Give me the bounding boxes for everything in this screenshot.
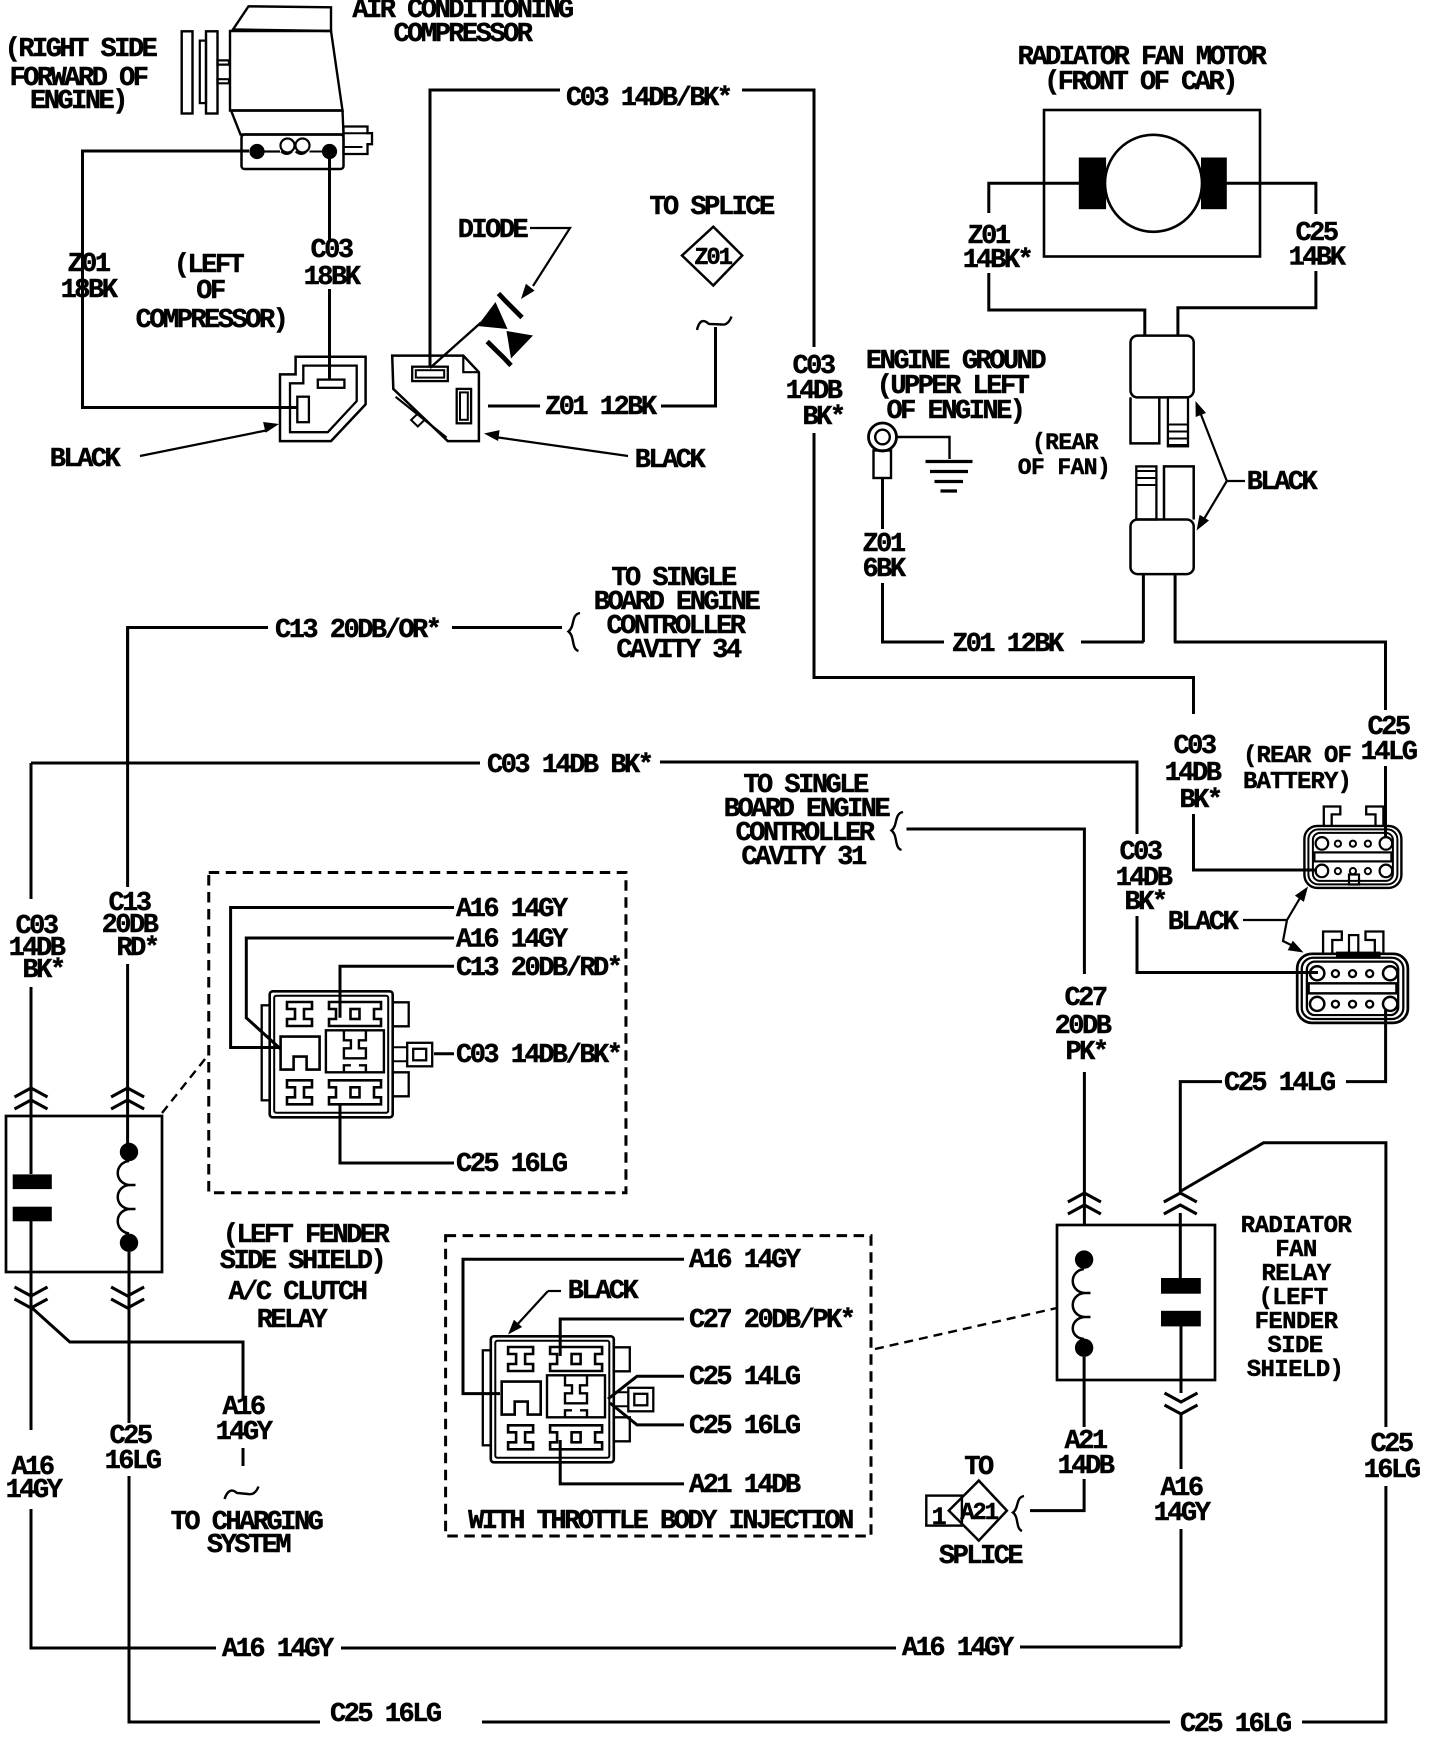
svg-text:A16 14GY: A16 14GY xyxy=(222,1635,335,1665)
svg-text:C27 20DB/PK*: C27 20DB/PK* xyxy=(689,1306,854,1336)
svg-text:RD*: RD* xyxy=(116,934,157,964)
svg-text:RELAY: RELAY xyxy=(1261,1261,1331,1288)
wire Z01 18BK from compressor to connector xyxy=(83,151,299,408)
svg-text:FAN: FAN xyxy=(1275,1237,1316,1264)
svg-text:14BK: 14BK xyxy=(1289,244,1347,274)
relay K1 contact xyxy=(13,1174,52,1189)
wire C03 14DB/BK* right segment xyxy=(742,90,814,347)
wire C27 from cavity31 brace xyxy=(907,829,1085,974)
inline connector chevrons below K1 right xyxy=(111,1287,144,1308)
svg-text:14GY: 14GY xyxy=(6,1476,64,1506)
wire Z01 6BK xyxy=(881,478,884,529)
svg-text:OF FAN): OF FAN) xyxy=(1018,455,1110,481)
svg-text:BK*: BK* xyxy=(802,403,843,433)
inline connector chevrons C03 xyxy=(15,1088,48,1109)
connector cavity (C03) xyxy=(412,367,448,381)
inline connector chevrons C25 xyxy=(1164,1193,1197,1214)
wire C13 left column xyxy=(126,628,129,887)
svg-text:14DB: 14DB xyxy=(1165,759,1222,789)
svg-text:C25 16LG: C25 16LG xyxy=(330,1700,441,1730)
dashed box (A/C clutch relay connector) xyxy=(209,873,626,1193)
svg-text:COMPRESSOR): COMPRESSOR) xyxy=(136,306,287,336)
svg-text:BLACK: BLACK xyxy=(635,446,707,476)
svg-text:A16 14GY: A16 14GY xyxy=(456,926,569,956)
8-pin connector B (black) xyxy=(1297,954,1408,1023)
wire C03 14DB BK* to y677 run xyxy=(814,433,1194,714)
A/C compressor pulley xyxy=(182,31,193,113)
svg-text:SPLICE: SPLICE xyxy=(939,1542,1024,1572)
wire to 8pin connector B xyxy=(1137,916,1318,973)
relay K2 contact xyxy=(1161,1278,1201,1294)
svg-text:DIODE: DIODE xyxy=(458,216,529,246)
wire C25 14BK motor right xyxy=(1226,183,1316,214)
fan motor brush right xyxy=(1201,158,1227,210)
compressor terminal left xyxy=(249,144,264,159)
svg-text:CAVITY 31: CAVITY 31 xyxy=(741,843,867,873)
svg-text:ENGINE): ENGINE) xyxy=(30,87,126,117)
svg-text:WITH THROTTLE BODY INJECTION: WITH THROTTLE BODY INJECTION xyxy=(468,1507,853,1537)
wire C25 16LG (TBI) xyxy=(610,1403,684,1425)
connector latch bump xyxy=(411,414,424,427)
svg-text:C27: C27 xyxy=(1064,984,1106,1014)
svg-text:BK*: BK* xyxy=(1124,888,1165,918)
inline connector chevrons C13 xyxy=(111,1088,144,1109)
svg-text:BLACK: BLACK xyxy=(1247,468,1319,498)
compressor terminal right xyxy=(322,144,337,159)
wire A16 up to relay K2 xyxy=(1180,1529,1183,1647)
wire C03 left column xyxy=(30,763,33,899)
svg-text:(LEFT: (LEFT xyxy=(1258,1285,1327,1312)
splice box pin 1 xyxy=(926,1496,962,1526)
wire C27 to relay xyxy=(1083,1072,1086,1226)
svg-text:(FRONT OF CAR): (FRONT OF CAR) xyxy=(1044,68,1236,98)
svg-text:C03 14DB/BK*: C03 14DB/BK* xyxy=(566,84,731,114)
inline connector chevrons below K1 left xyxy=(15,1287,48,1308)
splice symbol Z01 diamond xyxy=(682,227,742,286)
svg-text:RADIATOR: RADIATOR xyxy=(1241,1213,1353,1240)
svg-text:BK*: BK* xyxy=(22,956,63,986)
svg-text:C25 16LG: C25 16LG xyxy=(689,1412,800,1442)
svg-text:A21: A21 xyxy=(960,1500,998,1527)
svg-text:OF ENGINE): OF ENGINE) xyxy=(886,397,1023,427)
svg-text:C25 16LG: C25 16LG xyxy=(456,1150,567,1180)
svg-text:C13 20DB/RD*: C13 20DB/RD* xyxy=(456,954,621,984)
TBI connector (black) xyxy=(483,1336,654,1462)
svg-text:16LG: 16LG xyxy=(1364,1456,1420,1486)
wire A16 right column upper xyxy=(1180,1415,1183,1469)
relay K1 contact wire xyxy=(30,1221,33,1307)
wire Z01 12BK to fan connector xyxy=(1081,641,1144,644)
svg-text:(RIGHT SIDE: (RIGHT SIDE xyxy=(5,35,158,65)
wire A16 14GY (relay conn pin 2) xyxy=(246,938,454,1049)
wire fan connector lower out left xyxy=(1142,574,1145,642)
inline connector chevrons C27 xyxy=(1068,1193,1101,1214)
svg-text:14GY: 14GY xyxy=(1154,1499,1212,1529)
relay K2 contact wire top xyxy=(1179,1213,1182,1278)
wire C25 14LG connector B to relay xyxy=(1346,1010,1386,1082)
svg-text:SHIELD): SHIELD) xyxy=(1247,1357,1344,1384)
wire fan connector lower out right xyxy=(1174,574,1177,642)
fan connector lower body xyxy=(1131,520,1194,575)
splice symbol A21 diamond xyxy=(949,1481,1007,1541)
wire A16 bottom right xyxy=(1020,1646,1181,1649)
wire C25 segment right of fan connector xyxy=(1174,642,1386,710)
svg-text:C13 20DB/OR*: C13 20DB/OR* xyxy=(275,616,440,646)
diode lead wire xyxy=(430,323,481,369)
brace (A21 splice) xyxy=(1013,1496,1024,1531)
svg-text:14GY: 14GY xyxy=(216,1418,274,1448)
svg-text:6BK: 6BK xyxy=(862,555,906,585)
relay K2 contact wire bottom xyxy=(1180,1326,1183,1393)
fan connector lower pin (striped) xyxy=(1136,466,1156,519)
wire C25 16LG right column xyxy=(1302,1486,1386,1722)
wire A21 14DB (TBI) xyxy=(560,1440,684,1484)
connector (compressor, black) outline xyxy=(280,357,366,441)
diode D1 (bowtie suppressor) xyxy=(478,302,508,329)
diode pointer line xyxy=(530,228,570,286)
wire C25 branch to C25 16LG xyxy=(1181,1143,1386,1427)
svg-text:(REAR OF: (REAR OF xyxy=(1243,743,1351,770)
svg-text:C03 14DB/BK*: C03 14DB/BK* xyxy=(456,1041,621,1071)
relay connector (left fender) xyxy=(262,991,433,1117)
relay K1 (A/C clutch relay) box xyxy=(6,1116,162,1272)
svg-text:C25 16LG: C25 16LG xyxy=(1180,1710,1291,1740)
svg-text:A/C CLUTCH: A/C CLUTCH xyxy=(228,1278,366,1308)
svg-text:CAVITY 34: CAVITY 34 xyxy=(616,636,742,666)
svg-text:A16 14GY: A16 14GY xyxy=(902,1634,1015,1664)
svg-text:14LG: 14LG xyxy=(1361,738,1417,768)
8-pin connector A (rear of battery) xyxy=(1304,826,1401,888)
dashed box (throttle body) xyxy=(446,1236,871,1536)
svg-text:(REAR: (REAR xyxy=(1032,430,1099,456)
svg-text:SIDE: SIDE xyxy=(1267,1333,1322,1360)
svg-text:C03: C03 xyxy=(1173,732,1215,762)
relay K2 coil wire xyxy=(1083,1357,1086,1427)
wire C03 14DB BK* long run xyxy=(31,762,480,765)
wire hook below Z01 splice xyxy=(697,317,732,331)
dashed leader to relay K2 xyxy=(875,1308,1057,1349)
hook (to charging system) xyxy=(225,1487,259,1500)
A/C compressor terminal block xyxy=(242,135,344,170)
relay K1 coil wire xyxy=(128,1252,131,1342)
svg-text:BATTERY): BATTERY) xyxy=(1243,769,1351,796)
brace (cavity 31) xyxy=(892,812,904,850)
svg-text:C03 14DB BK*: C03 14DB BK* xyxy=(487,751,652,781)
wire A16 left column down xyxy=(30,1307,33,1430)
svg-text:14DB: 14DB xyxy=(1058,1452,1115,1482)
wire C13 20DB/RD* (relay conn) xyxy=(340,966,454,1018)
ground symbol xyxy=(897,437,950,459)
wire A21 14DB xyxy=(1030,1479,1084,1511)
connector B tabs xyxy=(1323,932,1342,956)
wire C13 20DB/OR* run xyxy=(128,628,268,763)
svg-text:BLACK: BLACK xyxy=(568,1277,640,1307)
svg-text:C25 14LG: C25 14LG xyxy=(1224,1069,1335,1099)
svg-text:OF: OF xyxy=(196,277,225,307)
svg-text:FENDER: FENDER xyxy=(1255,1309,1339,1336)
wire A16 to charging hook xyxy=(242,1448,245,1466)
dashed leader to relay K1 xyxy=(162,1054,209,1113)
svg-text:TO SPLICE: TO SPLICE xyxy=(649,193,775,223)
svg-text:TO: TO xyxy=(964,1453,994,1483)
brace (cavity 34) xyxy=(569,613,581,651)
svg-text:BLACK: BLACK xyxy=(1168,908,1240,938)
wire A16 bottom middle xyxy=(341,1647,896,1650)
connector (diode, black) outline xyxy=(392,356,479,442)
inline connector chevrons below K2 xyxy=(1165,1393,1198,1414)
relay K2 (radiator fan relay) box xyxy=(1057,1225,1215,1380)
A/C compressor body xyxy=(233,6,331,31)
wire C25 16LG from K1 coil xyxy=(128,1342,131,1423)
svg-text:A16 14GY: A16 14GY xyxy=(689,1246,802,1276)
wire Z01 14BK* motor left xyxy=(989,183,1079,213)
fan motor box xyxy=(1044,110,1260,257)
svg-text:14BK*: 14BK* xyxy=(963,246,1032,276)
wire A16 14GY (relay conn pin 1) xyxy=(231,908,454,1048)
wire C03 14DB/BK* (relay conn) xyxy=(434,1052,454,1055)
wire C03 18BK compressor to connector xyxy=(328,159,331,242)
svg-text:Z01 12BK: Z01 12BK xyxy=(952,630,1065,660)
connector cavity (Z01 pin) xyxy=(297,397,309,423)
relay K2 coil xyxy=(1075,1250,1093,1268)
connector A tabs xyxy=(1324,807,1341,827)
svg-text:Z01 12BK: Z01 12BK xyxy=(545,393,658,423)
svg-text:SIDE SHIELD): SIDE SHIELD) xyxy=(220,1247,384,1277)
fan connector upper body xyxy=(1131,336,1194,398)
relay K1 coil xyxy=(120,1143,138,1161)
svg-text:RELAY: RELAY xyxy=(257,1306,329,1336)
compressor clutch coil squiggle xyxy=(265,150,281,152)
svg-text:BK*: BK* xyxy=(1179,786,1220,816)
svg-text:18BK: 18BK xyxy=(61,276,119,306)
svg-text:C03: C03 xyxy=(310,236,352,266)
svg-text:18BK: 18BK xyxy=(304,263,362,293)
svg-text:A21 14DB: A21 14DB xyxy=(689,1471,801,1501)
fan motor brush left xyxy=(1079,158,1106,210)
wire C03 14DB/BK* from diode connector up xyxy=(430,90,560,366)
wire A16 diagonal from K1 xyxy=(31,1307,243,1398)
wire C27 20DB/PK* (TBI) xyxy=(560,1319,684,1356)
fan connector upper pin (striped) xyxy=(1168,397,1188,446)
svg-text:16LG: 16LG xyxy=(105,1447,161,1477)
svg-text:A16 14GY: A16 14GY xyxy=(456,895,569,925)
svg-text:SYSTEM: SYSTEM xyxy=(207,1531,291,1561)
wire C25 14LG (TBI) xyxy=(608,1376,684,1399)
svg-text:BLACK: BLACK xyxy=(50,445,122,475)
svg-text:PK*: PK* xyxy=(1065,1038,1106,1068)
wire C25 16LG (relay conn) xyxy=(340,1104,454,1163)
wire to 8pin connector A xyxy=(1194,814,1318,870)
ring terminal (engine ground) xyxy=(869,423,897,451)
wire Z01 12BK to diode connector xyxy=(488,405,540,408)
wire C25 14LG down to connector xyxy=(1384,766,1387,837)
fan motor M1 circle xyxy=(1105,135,1202,232)
connector cavity (C03 pin) xyxy=(318,380,345,388)
wire A16 14GY (TBI) xyxy=(463,1259,684,1393)
svg-text:C25 14LG: C25 14LG xyxy=(689,1363,800,1393)
wire C25 bottom middle xyxy=(482,1721,1170,1724)
svg-text:Z01: Z01 xyxy=(694,245,732,272)
compressor stud xyxy=(344,127,373,155)
svg-text:COMPRESSOR: COMPRESSOR xyxy=(393,20,533,50)
svg-text:1: 1 xyxy=(932,1503,946,1532)
connector cavity (Z01) xyxy=(457,389,471,423)
